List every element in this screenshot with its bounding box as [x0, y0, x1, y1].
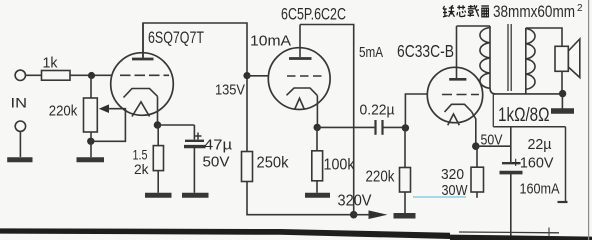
ground (speaker) [551, 108, 574, 114]
resistor R6 320/30W [471, 167, 484, 192]
ground (R5 single bar) [394, 213, 416, 219]
wire node B to grid V2 [247, 75, 269, 77]
wire plate V1 to rail [143, 23, 247, 152]
capacitor C3 22u plates [502, 162, 521, 164]
wiper arrow [99, 104, 109, 113]
wire J1 to R1 [25, 74, 41, 76]
input terminal J1 (top) [15, 70, 25, 80]
node (pot bottom junction dot) [87, 138, 94, 145]
wire plate V3 to transformer primary [457, 25, 491, 27]
resistor R3 1.5k/2k [153, 146, 163, 171]
svg-text:10mA: 10mA [250, 33, 291, 50]
wire R2 bottom to supply rail [247, 182, 354, 215]
plate V3 [456, 26, 458, 78]
node B (junction dot 135V) [243, 72, 250, 79]
resistor R2 250k [242, 152, 253, 182]
ground (R4) [305, 193, 330, 198]
tube V3 6C33C-B envelope [427, 67, 482, 122]
speaker LS [555, 46, 568, 71]
filament V2 [295, 98, 304, 109]
node C (junction dot) [350, 211, 358, 219]
wire R4 to ground [316, 181, 318, 193]
svg-text:6C5P.6C2C: 6C5P.6C2C [281, 5, 346, 24]
svg-text:100k: 100k [324, 157, 355, 174]
svg-text:2: 2 [577, 3, 583, 14]
supply arrow 320V [369, 210, 388, 219]
wire R1 to grid V1 [70, 74, 113, 76]
wire to R4 [316, 127, 318, 150]
node (cathode V2 junction dot) [314, 124, 321, 131]
polarity + (C1) [195, 135, 202, 137]
filament V3 [448, 114, 460, 125]
svg-text:+160V: +160V [512, 155, 554, 172]
resistor R1 1k [42, 71, 71, 81]
wire cathode V2 down [316, 96, 318, 128]
input terminal J2 (bottom) [15, 121, 25, 131]
ground (R3) [145, 193, 172, 198]
svg-text:320: 320 [441, 166, 464, 183]
svg-text:50V: 50V [203, 154, 230, 171]
filament V1 [132, 102, 150, 117]
wire label box bottom line [493, 126, 565, 128]
wire node D to R5 [404, 128, 406, 168]
wire label box right line [565, 127, 567, 202]
wire speaker bottom [561, 71, 563, 94]
char xin [457, 5, 466, 16]
svg-text:220k: 220k [366, 169, 395, 186]
node D (junction dot) [402, 124, 409, 131]
wire cathode V1 down [157, 96, 159, 125]
wire pot bottom to ground [90, 132, 92, 157]
cathode V3 [445, 104, 472, 112]
tube V1 6SQ7 envelope [111, 53, 174, 116]
grid V3 (dashed) [442, 94, 479, 96]
svg-text:320V: 320V [338, 193, 373, 210]
svg-text:38mmx60mm: 38mmx60mm [493, 2, 575, 21]
wire C1 to ground [193, 148, 195, 193]
wire R6 bottom stub [476, 192, 478, 198]
resistor R5 220k [400, 168, 411, 193]
wire J2 to ground [19, 131, 21, 157]
transformer T1 core [507, 24, 509, 91]
char tie [443, 5, 455, 17]
grid V1 (dashed) [120, 74, 169, 76]
transformer T1 primary winding [490, 26, 496, 94]
grid V2 (dashed) [287, 75, 324, 77]
capacitor C1 47u plates [185, 140, 204, 142]
wiper wire [91, 109, 126, 142]
svg-text:1kΩ/8Ω: 1kΩ/8Ω [498, 104, 550, 126]
ground (potentiometer) [77, 157, 105, 162]
svg-text:250k: 250k [257, 155, 289, 172]
wire node F to ground [561, 94, 563, 109]
wire C3 bottom to bus [510, 174, 512, 239]
svg-text:6C33C-B: 6C33C-B [397, 41, 454, 61]
scan edge line right [588, 0, 590, 240]
ground (C1) [182, 193, 209, 198]
node F (speaker junction dot) [559, 90, 566, 97]
wire node D to grid V3 [405, 94, 427, 128]
char mian [481, 6, 489, 17]
wire node C to arrow [354, 214, 370, 216]
char jie [468, 5, 479, 17]
wire R5 to ground [404, 192, 406, 213]
svg-text:160mA: 160mA [520, 181, 560, 198]
wire C2 to node D [384, 126, 406, 128]
scan artifact cyan line [413, 196, 466, 198]
plate V1 [142, 23, 144, 58]
wire cathode V3 down [472, 112, 476, 147]
node A (junction dot) [88, 72, 95, 79]
svg-text:1.5: 1.5 [133, 148, 148, 163]
wire plate V2 to 5mA line [300, 25, 354, 215]
bottom bus bar (B- rail) [0, 228, 280, 234]
wire to R3 [157, 125, 159, 146]
potentiometer RP1 220k body [84, 98, 98, 132]
wire node E to C3 [476, 145, 511, 147]
cathode V1 [124, 89, 158, 98]
node E (cathode junction dot 50V) [472, 142, 480, 150]
label core (hand-drawn CJK: tie xin jie mian) [443, 5, 489, 17]
cathode V2 [287, 88, 318, 96]
capacitor C2 0.22u [374, 120, 376, 135]
wire node E to R6 [476, 146, 478, 167]
label box bottom hook [558, 201, 568, 203]
wire secondary top to speaker [526, 28, 562, 46]
svg-text:0.22µ: 0.22µ [360, 102, 395, 119]
svg-text:22µ: 22µ [528, 136, 552, 153]
wire node A to potentiometer top [90, 76, 92, 99]
bracket left (label box) [492, 94, 494, 127]
svg-text:IN: IN [11, 96, 28, 111]
svg-text:1k: 1k [43, 56, 59, 72]
svg-text:6SQ7Q7T: 6SQ7Q7T [148, 28, 204, 47]
svg-text:220k: 220k [49, 103, 78, 120]
tube V2 6C5P/6C2C envelope [268, 48, 330, 110]
resistor R4 100k [312, 151, 323, 181]
wire R3 to ground [157, 171, 159, 193]
wire cathode node to C1 [158, 124, 195, 126]
wire C3 top to 1k-ohm line [510, 127, 512, 162]
plate V2 [299, 25, 301, 58]
ground (input) [7, 157, 32, 162]
wire cathode V2 to C2 [317, 126, 374, 128]
svg-text:5mA: 5mA [359, 44, 383, 61]
transformer T1 secondary winding [525, 28, 527, 94]
svg-text:135V: 135V [215, 82, 245, 99]
node (cathode V1 junction dot) [154, 121, 162, 129]
svg-text:2k: 2k [134, 162, 149, 177]
svg-text:47µ: 47µ [204, 137, 232, 154]
wire transformer bottom line [495, 93, 563, 95]
